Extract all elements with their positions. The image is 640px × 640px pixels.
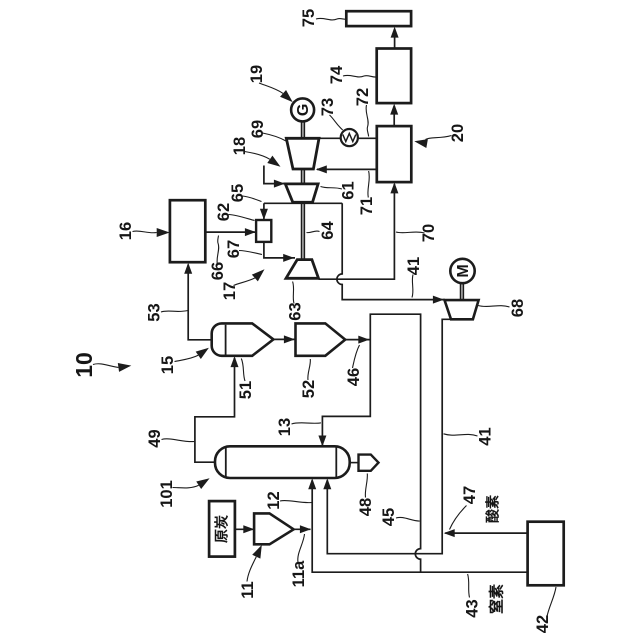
svg-text:46: 46 [345,368,363,386]
svg-text:64: 64 [319,221,337,240]
svg-text:61: 61 [340,181,358,199]
svg-text:101: 101 [158,480,176,508]
svg-text:66: 66 [209,262,227,280]
svg-text:52: 52 [300,380,318,398]
svg-text:10: 10 [71,352,97,378]
svg-text:43: 43 [464,599,482,617]
svg-text:41: 41 [405,257,423,275]
svg-text:71: 71 [358,197,376,215]
svg-text:49: 49 [146,429,164,447]
svg-text:13: 13 [276,418,294,436]
svg-text:69: 69 [249,120,267,138]
svg-text:酸素: 酸素 [485,495,501,523]
svg-text:G: G [295,104,312,116]
svg-text:12: 12 [265,491,283,509]
svg-text:45: 45 [380,508,398,526]
svg-text:53: 53 [146,303,164,321]
svg-text:M: M [455,264,472,277]
svg-text:20: 20 [449,124,467,142]
svg-text:70: 70 [420,224,438,242]
svg-text:15: 15 [159,356,177,374]
svg-text:11a: 11a [290,560,308,587]
svg-text:18: 18 [231,137,249,155]
svg-text:72: 72 [354,88,372,106]
svg-text:11: 11 [239,581,257,598]
svg-text:42: 42 [534,615,552,633]
svg-text:41: 41 [477,427,495,445]
svg-text:窒素: 窒素 [488,584,506,614]
svg-text:63: 63 [287,302,305,320]
svg-text:原炭: 原炭 [214,515,230,543]
svg-text:16: 16 [117,222,135,240]
svg-text:67: 67 [225,240,243,258]
svg-text:65: 65 [229,184,247,202]
svg-text:17: 17 [221,282,239,300]
svg-text:68: 68 [509,299,527,317]
svg-text:51: 51 [237,381,255,399]
svg-text:47: 47 [461,486,479,504]
svg-text:74: 74 [328,65,346,84]
svg-text:48: 48 [357,498,375,516]
svg-text:73: 73 [319,98,337,116]
svg-text:19: 19 [248,65,266,83]
svg-text:75: 75 [300,9,318,27]
svg-text:62: 62 [215,203,233,221]
